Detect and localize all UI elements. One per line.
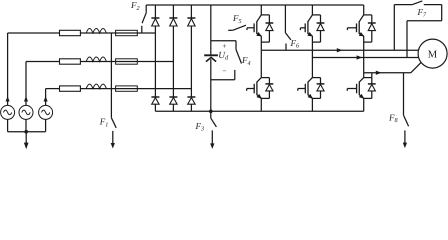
F8 ground arrow	[404, 130, 406, 143]
transistor V1 gate lead	[247, 27, 254, 29]
current arrow source 2	[24, 97, 27, 101]
switch F6 blade	[285, 33, 291, 40]
current arrow source 1	[6, 97, 9, 101]
transistor V3 emitter	[308, 34, 313, 37]
diode VD12	[368, 83, 376, 85]
wire F4 tap	[211, 40, 236, 42]
wire F3 stub	[210, 111, 212, 118]
wire V4 collector from output	[311, 58, 313, 78]
wire output V	[312, 57, 418, 59]
transistor V1 body bar	[256, 21, 258, 34]
switch F2 blade	[142, 13, 146, 23]
transistor V6 gate bar	[356, 84, 358, 94]
wire V3 emitter to output	[311, 36, 313, 57]
wire cap bottom	[210, 59, 212, 111]
node neutral	[24, 130, 28, 134]
wire phase A	[8, 32, 60, 34]
wire F5 feed	[228, 29, 233, 31]
inductor LC	[86, 84, 106, 89]
transistor V3 body bar	[307, 21, 309, 34]
svg-text:M: M	[428, 50, 438, 61]
wire cap top	[210, 5, 212, 54]
wire source 2 to neutral	[25, 119, 27, 131]
wire rectifier leg 2	[172, 5, 174, 111]
diode VD9	[317, 22, 325, 24]
wire V3 collector to dc+	[311, 5, 313, 15]
wire F6 lower stub	[285, 44, 287, 51]
wire V6 emitter to dc-	[363, 98, 365, 111]
diode VD4	[151, 96, 159, 98]
wire F2 upper stub	[145, 5, 147, 13]
transistor V4 emitter	[308, 95, 312, 99]
transistor V5 body bar	[358, 21, 360, 34]
resistor RB	[60, 59, 81, 64]
transistor V2 emitter	[257, 95, 261, 99]
svg-text:F4: F4	[241, 55, 251, 67]
svg-text:F3: F3	[195, 121, 205, 133]
wire source 2 to phase 2	[25, 62, 27, 106]
svg-text:F7: F7	[417, 7, 428, 19]
wire source 1 to phase 1	[7, 33, 9, 105]
transistor V3 gate lead	[300, 27, 305, 29]
wire F1 tap	[110, 33, 112, 118]
diode VD10	[317, 83, 325, 85]
wire phase C	[46, 88, 60, 90]
transistor V1 emitter	[257, 34, 262, 37]
fuse FUC	[116, 86, 138, 91]
transistor V5 gate bar	[356, 23, 358, 32]
resistor RA	[60, 30, 81, 35]
wire dc- rail	[155, 110, 363, 112]
wire F2 lower contact	[141, 26, 143, 33]
wire V2 diode branch	[261, 77, 269, 79]
transistor V6 collector	[359, 78, 363, 83]
wire phase B	[26, 61, 60, 63]
capacitor Cd plate+	[204, 54, 218, 56]
svg-text:Ud: Ud	[218, 51, 229, 62]
transistor V6 emitter	[359, 95, 363, 99]
transistor V2 body bar	[256, 82, 258, 96]
wire source 1 to neutral	[7, 119, 9, 131]
transistor V3 collector	[308, 15, 313, 22]
fuse FUA	[116, 30, 138, 35]
wire source 3 to phase 3	[45, 89, 47, 106]
wire V1 emitter to output	[260, 36, 262, 50]
wire V2 collector from output	[260, 50, 262, 77]
wire output W	[364, 72, 411, 74]
transistor V2 collector	[257, 78, 261, 83]
transistor V5 emitter	[359, 34, 364, 37]
wire F5 contact tick	[246, 28, 248, 30]
transistor V5 gate lead	[347, 27, 356, 29]
diode VD6	[187, 96, 195, 98]
diode VD5	[169, 96, 177, 98]
transistor V6 gate lead	[347, 88, 356, 90]
transistor V4 gate lead	[298, 88, 306, 90]
wire rectifier leg 3	[190, 5, 192, 111]
diode VD8	[266, 83, 274, 85]
transistor V3 gate bar	[304, 23, 306, 32]
diode VD11	[368, 22, 376, 24]
wire F7 top right	[424, 4, 442, 6]
switch F1 blade	[111, 118, 116, 128]
wire V3 diode branch	[312, 14, 320, 16]
wire V5 emitter to output	[363, 36, 365, 73]
wire F6 upper stub	[284, 5, 286, 33]
wire V6 diode stub	[371, 73, 373, 78]
neutral rail	[8, 131, 46, 133]
ac source V3	[39, 105, 53, 119]
switch F7 blade	[412, 1, 422, 5]
diode VD7	[266, 22, 274, 24]
wire F7 left riser	[393, 5, 395, 51]
wire V1 diode branch	[261, 14, 269, 16]
svg-text:F1: F1	[99, 117, 109, 129]
wire F7 top left	[394, 4, 412, 6]
transistor V5 collector	[359, 15, 364, 22]
wire F7 inner drop	[406, 21, 408, 58]
svg-text:F5: F5	[232, 13, 242, 25]
transistor V4 gate bar	[304, 84, 306, 94]
wire V2 emitter to dc-	[260, 98, 262, 111]
wire F7 return	[407, 20, 442, 22]
inductor LB	[86, 57, 106, 62]
inductor LA	[86, 29, 106, 34]
transistor V4 collector	[308, 78, 312, 83]
wire V4 emitter to dc-	[311, 98, 313, 111]
wire F4 lower contact	[234, 70, 236, 80]
wire V5 collector to dc+	[363, 5, 365, 15]
svg-text:F8: F8	[388, 112, 398, 124]
ac source V1	[1, 105, 15, 119]
diode VD1	[151, 17, 159, 19]
switch F5 blade	[233, 25, 246, 30]
ac source V2	[19, 105, 33, 119]
transistor V1 gate bar	[253, 23, 255, 32]
svg-text:+: +	[222, 42, 226, 51]
transistor V4 body bar	[307, 82, 309, 96]
diode VD3	[187, 17, 195, 19]
wire V6 collector from output	[363, 73, 365, 78]
resistor RC	[60, 86, 81, 91]
wire rectifier leg 1	[154, 5, 156, 111]
wire V1 collector to dc+	[260, 5, 262, 15]
svg-text:−: −	[222, 67, 227, 76]
wire V6 diode branch	[364, 77, 372, 79]
transistor V2 gate lead	[247, 88, 255, 90]
fuse FUB	[116, 59, 138, 64]
switch F8 blade	[404, 115, 409, 126]
wire output U	[261, 49, 419, 51]
diode VD2	[169, 17, 177, 19]
svg-text:F6: F6	[290, 38, 301, 50]
wire F8 tap	[403, 73, 405, 116]
wire source 3 to neutral	[45, 119, 47, 131]
F3 ground arrow	[211, 130, 213, 143]
wire dc+ rail	[146, 4, 364, 6]
switch F3 blade	[211, 118, 217, 127]
neutral ground arrow	[25, 132, 27, 143]
wire F7 right drop	[441, 5, 443, 21]
wire V5 diode branch	[364, 14, 372, 16]
transistor V1 collector	[257, 15, 262, 22]
transistor V2 gate bar	[253, 84, 255, 94]
transistor V6 body bar	[358, 82, 360, 96]
motor M	[418, 39, 447, 68]
current arrow source 3	[44, 97, 47, 101]
F1 ground arrow	[112, 131, 114, 144]
switch F4 blade	[236, 50, 242, 64]
svg-text:F2: F2	[130, 0, 140, 12]
wire V4 diode branch	[312, 77, 320, 79]
capacitor Cd plate-	[206, 57, 216, 61]
node dc- cap	[209, 110, 213, 114]
